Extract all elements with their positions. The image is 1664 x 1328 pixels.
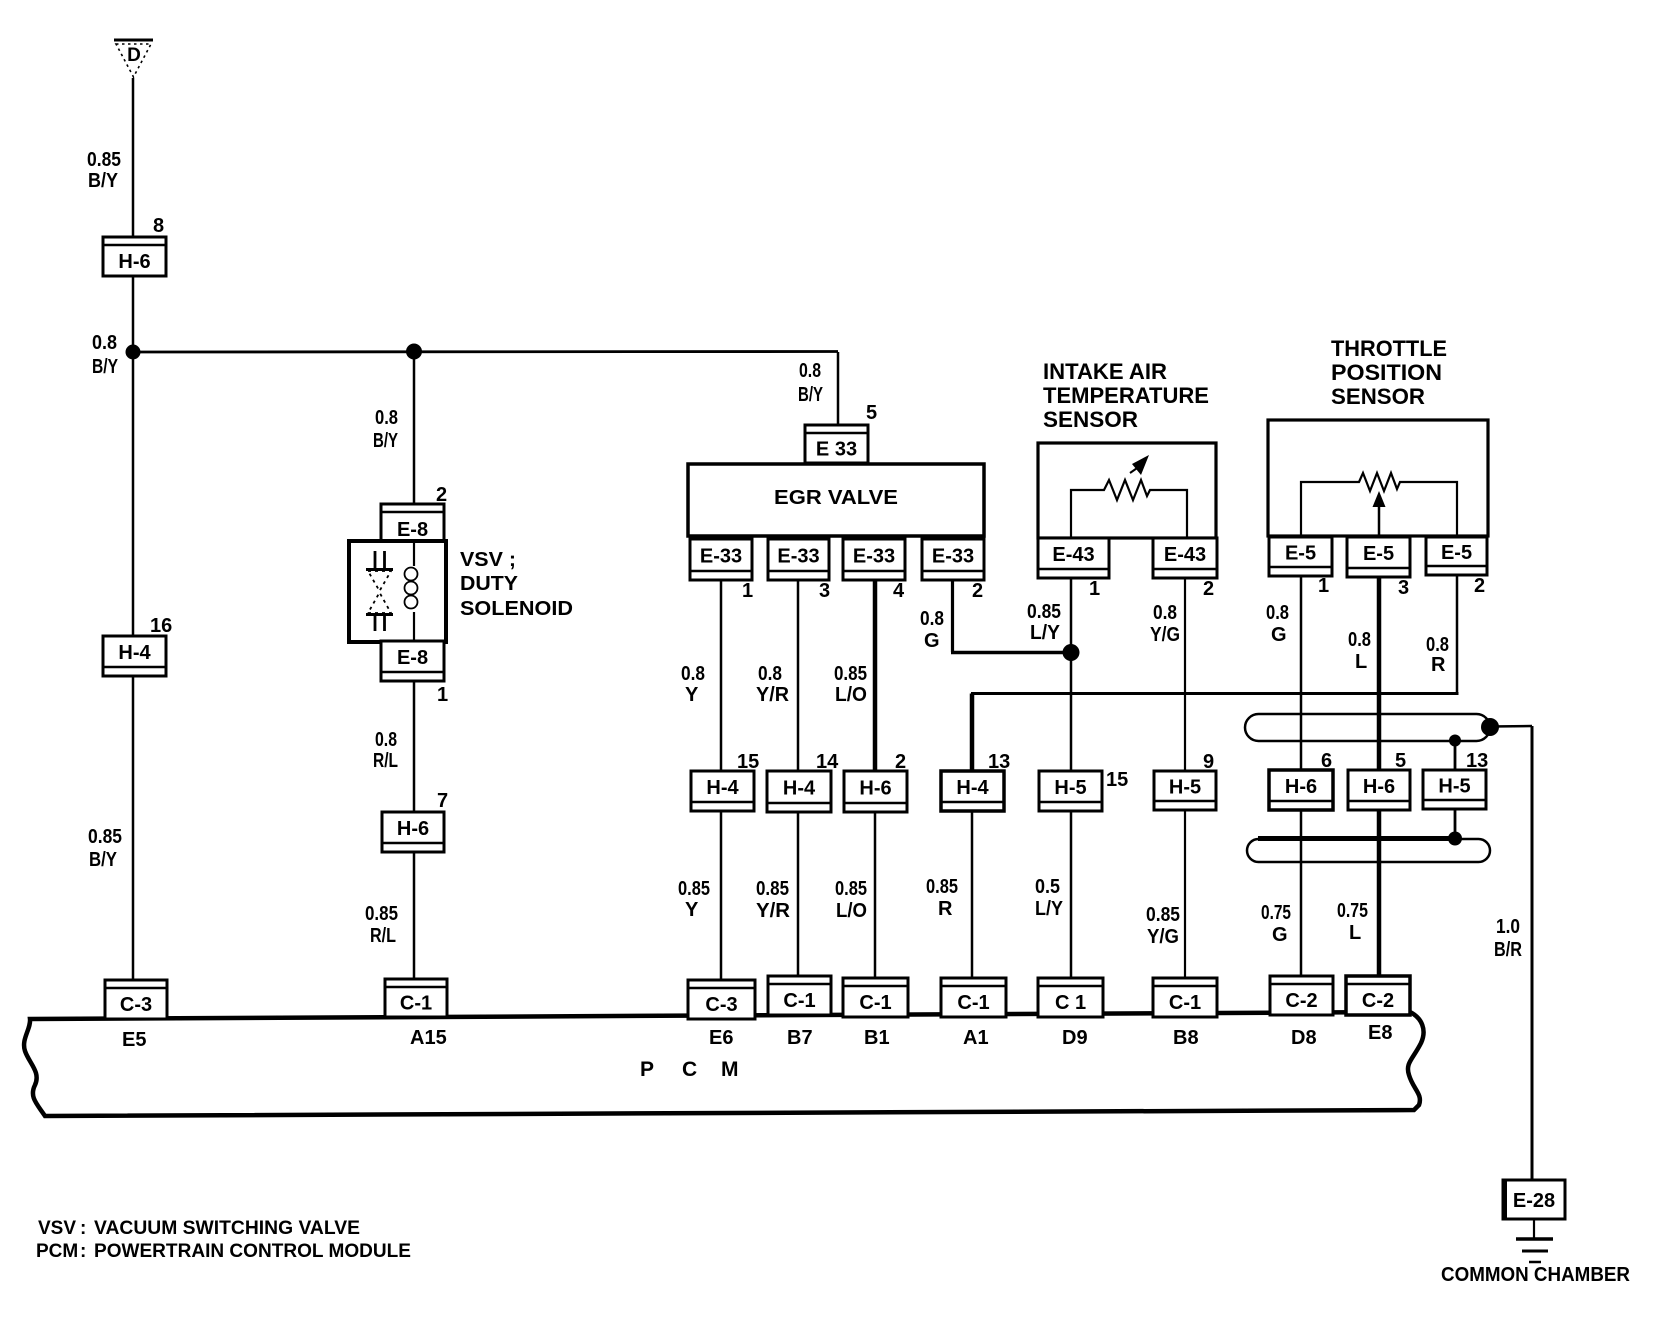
svg-text:0.85: 0.85 <box>926 876 958 898</box>
wire 0.5 L/Y from H-5 to C-1 <box>1070 811 1073 979</box>
svg-text:L/Y: L/Y <box>1035 898 1064 920</box>
throttle position sensor body <box>1268 420 1488 536</box>
svg-text:L/O: L/O <box>836 900 867 922</box>
svg-text:TEMPERATURE: TEMPERATURE <box>1043 383 1209 408</box>
connector H-6 pin 2 <box>844 751 907 812</box>
wire E-28 to ground <box>1533 1219 1535 1239</box>
svg-text:Y/R: Y/R <box>756 900 791 922</box>
svg-text:THROTTLE: THROTTLE <box>1331 336 1447 361</box>
connector C-1 (PCM A15) <box>385 979 447 1017</box>
svg-text:R: R <box>1431 654 1446 676</box>
svg-text:0.85: 0.85 <box>1027 601 1061 623</box>
PCM pin E5 <box>122 1029 146 1051</box>
connector E-33 pin 4 <box>843 539 905 602</box>
svg-text:0.85: 0.85 <box>678 878 710 900</box>
shield lower (screened cable) <box>1247 839 1490 863</box>
svg-text:C-1: C-1 <box>957 992 989 1014</box>
svg-text:SOLENOID: SOLENOID <box>460 598 573 620</box>
wire from H-4 pin 16 to C-3 <box>132 676 135 981</box>
svg-text:SENSOR: SENSOR <box>1043 407 1138 432</box>
label 0.8 G <box>920 608 944 652</box>
svg-text:8: 8 <box>153 215 164 237</box>
svg-text:2: 2 <box>436 484 447 506</box>
svg-text:E5: E5 <box>122 1029 146 1051</box>
connector C-3 (PCM E5) <box>105 980 167 1019</box>
svg-text:4: 4 <box>893 580 905 602</box>
svg-text:D8: D8 <box>1291 1027 1317 1049</box>
svg-text:5: 5 <box>866 402 877 424</box>
label 0.85 L/Y <box>1027 601 1061 644</box>
label 0.5 L/Y <box>1035 876 1064 920</box>
label 0.85 Y <box>678 878 710 921</box>
connector E-43 pin 1 <box>1038 538 1109 600</box>
PCM pin B7 <box>787 1027 813 1049</box>
svg-text:EGR VALVE: EGR VALVE <box>774 487 898 509</box>
svg-text:B/R: B/R <box>1494 939 1522 961</box>
connector C-3 (PCM E6) <box>688 980 755 1019</box>
connector H-6 pin 5 <box>1348 750 1410 810</box>
label 0.8 B/Y (EGR) <box>798 360 823 406</box>
wire 0.8 G from E-5 pin 1 through shield to C-2 <box>1300 576 1303 977</box>
svg-text:1: 1 <box>437 684 448 706</box>
svg-text:3: 3 <box>819 580 830 602</box>
svg-text:G: G <box>1272 924 1288 946</box>
wire 0.8 B/Y from bus to E-8 <box>413 352 416 505</box>
svg-text:C: C <box>682 1058 697 1081</box>
solenoid valve VSV duty solenoid <box>349 541 446 642</box>
label 0.75 L <box>1337 900 1368 944</box>
svg-text:L/Y: L/Y <box>1030 622 1061 644</box>
wire horizontal bus 0.8 B/Y <box>133 350 838 353</box>
svg-text:E-8: E-8 <box>397 519 428 541</box>
connector C-1 (PCM A1) <box>941 978 1006 1017</box>
svg-text:C-1: C-1 <box>400 992 432 1014</box>
PCM pin B1 <box>864 1027 890 1049</box>
svg-text:VSV: VSV <box>38 1218 76 1239</box>
wire stub shield to H-5 pin 13 <box>1454 741 1457 771</box>
svg-text:E-33: E-33 <box>853 545 895 567</box>
svg-text:H-4: H-4 <box>118 642 151 664</box>
label 0.85 R <box>926 876 958 920</box>
label 0.85 R/L <box>365 903 398 947</box>
svg-text:C 1: C 1 <box>1055 992 1086 1014</box>
connector H-5 pin 9 <box>1154 751 1216 810</box>
PCM pin B8 <box>1173 1027 1199 1049</box>
svg-text:0.85: 0.85 <box>835 878 867 900</box>
svg-text:0.85: 0.85 <box>365 903 398 925</box>
connector C-1 (PCM D9) <box>1038 978 1103 1017</box>
svg-text:0.85: 0.85 <box>88 826 122 848</box>
svg-text:H-4: H-4 <box>706 777 739 799</box>
svg-text:L: L <box>1355 651 1367 673</box>
svg-text:E-33: E-33 <box>700 545 742 567</box>
label THROTTLE POSITION SENSOR <box>1331 336 1447 409</box>
svg-text:Y/G: Y/G <box>1150 624 1180 646</box>
svg-text:SENSOR: SENSOR <box>1331 384 1425 409</box>
legend PCM definition <box>36 1241 411 1262</box>
svg-text:E-5: E-5 <box>1285 542 1316 564</box>
wire 0.85 B/Y from D to H-6 <box>132 78 135 238</box>
wire 0.8 B/Y from bus to E-33 pin 5 <box>837 352 840 426</box>
svg-text:0.8: 0.8 <box>375 729 397 751</box>
label 0.85 L/O (lower) <box>835 878 867 922</box>
label 0.85 Y/G <box>1146 904 1180 948</box>
svg-text:COMMON CHAMBER: COMMON CHAMBER <box>1441 1264 1631 1286</box>
svg-text:R/L: R/L <box>370 925 396 947</box>
junction node shield to drain wire <box>1481 718 1499 736</box>
svg-text:1: 1 <box>742 580 753 602</box>
connector H-5 pin 15 <box>1039 769 1128 811</box>
svg-text:Y/G: Y/G <box>1147 926 1179 948</box>
svg-text:A15: A15 <box>410 1027 447 1049</box>
connector H-6 pin 6 <box>1269 750 1333 810</box>
wire 0.8 L from E-5 pin 3 through shield to C-2 <box>1377 577 1382 977</box>
svg-text:0.85: 0.85 <box>756 878 789 900</box>
svg-text:15: 15 <box>737 751 759 773</box>
wire 0.8 R/L from E-8 to H-6 <box>413 681 416 813</box>
wire 1.0 B/R shield drain to E-28 <box>1490 726 1532 1181</box>
wire 0.85 R/L from H-6 to C-1 <box>413 852 416 980</box>
svg-text:0.8: 0.8 <box>1266 602 1289 624</box>
svg-text:H-6: H-6 <box>859 777 891 799</box>
svg-text:G: G <box>1271 624 1287 646</box>
svg-text:3: 3 <box>1398 577 1409 599</box>
connector H-5 pin 13 <box>1423 750 1488 809</box>
PCM pin E8 <box>1368 1022 1392 1044</box>
svg-text:Y/R: Y/R <box>756 684 790 706</box>
svg-text:G: G <box>924 630 940 652</box>
PCM powertrain control module body <box>24 1012 1423 1116</box>
connector H-4 pin 15 <box>691 751 759 811</box>
wire 0.85 Y/G from H-5 to C-1 <box>1184 810 1186 979</box>
svg-text:0.8: 0.8 <box>758 663 782 685</box>
svg-text:E-8: E-8 <box>397 647 428 669</box>
svg-text:0.8: 0.8 <box>375 407 398 429</box>
label 0.8 Y/G <box>1150 602 1180 646</box>
svg-text:6: 6 <box>1321 750 1332 772</box>
connector E-33 pin 3 <box>768 539 830 602</box>
label 1.0 B/R <box>1494 916 1522 961</box>
connector E-5 pin 3 <box>1347 537 1410 599</box>
label 0.85 L/O <box>834 663 867 706</box>
svg-text:7: 7 <box>437 790 448 812</box>
svg-text:L: L <box>1349 922 1361 944</box>
svg-text:1: 1 <box>1089 578 1100 600</box>
svg-text:2: 2 <box>972 580 983 602</box>
connector E-28 <box>1503 1180 1565 1219</box>
svg-text:C-2: C-2 <box>1285 990 1317 1012</box>
wire 0.85 Y from H-4 to C-3 <box>720 811 723 981</box>
wire 0.85 L/Y from E-43 pin 1 to H-5 <box>1070 578 1073 772</box>
svg-text:E-28: E-28 <box>1513 1190 1555 1212</box>
PCM pin E6 <box>709 1027 733 1049</box>
label 0.85 Y/R <box>756 878 791 922</box>
label 0.8 B/Y (VSV branch) <box>373 407 398 452</box>
svg-text:H-6: H-6 <box>1285 776 1317 798</box>
label 0.8 G (TPS) <box>1266 602 1289 646</box>
svg-text:13: 13 <box>988 751 1010 773</box>
svg-text:DUTY: DUTY <box>460 573 519 595</box>
junction node G wire to L/Y wire <box>1063 644 1080 661</box>
label 0.8 R/L <box>373 729 398 772</box>
connector H-4 pin 16 <box>103 615 172 676</box>
svg-text:B/Y: B/Y <box>798 384 823 406</box>
connector H-6 pin 7 <box>382 790 448 852</box>
svg-text:B/Y: B/Y <box>373 430 398 452</box>
wire 0.8 Y/R from E-33 pin 3 to H-4 <box>797 580 800 772</box>
svg-text:0.8: 0.8 <box>1426 634 1449 656</box>
svg-text:0.8: 0.8 <box>1153 602 1177 624</box>
connector C-2 (PCM D8) <box>1270 976 1333 1015</box>
svg-text:16: 16 <box>150 615 172 637</box>
label 0.85 B/Y (left lower) <box>88 826 122 871</box>
potentiometer element <box>1301 473 1457 537</box>
label VSV ; DUTY SOLENOID <box>460 549 573 620</box>
label 0.8 L <box>1348 629 1371 673</box>
label 0.8 Y <box>681 663 705 706</box>
connector C-2 (PCM E8) <box>1346 976 1410 1015</box>
connector E-33 pin 1 <box>690 539 753 602</box>
svg-text:E-43: E-43 <box>1164 544 1206 566</box>
svg-text:1.0: 1.0 <box>1496 916 1520 938</box>
connector E-5 pin 2 <box>1426 537 1487 597</box>
wire 0.85 R from H-4 to C-1 <box>971 811 974 979</box>
ground point D (joint connector) <box>114 40 153 77</box>
junction node at VSV branch <box>406 344 422 360</box>
svg-text:H-6: H-6 <box>1363 776 1395 798</box>
svg-text:0.75: 0.75 <box>1337 900 1368 922</box>
label 0.8 Y/R <box>756 663 790 706</box>
wire 0.8 B/Y from H-6 to junction <box>132 276 135 352</box>
connector H-6 pin 8 <box>103 215 166 276</box>
connector E-8 pin 1 <box>381 641 448 706</box>
EGR valve body <box>688 464 984 536</box>
label COMMON CHAMBER <box>1441 1264 1631 1286</box>
svg-text:H-5: H-5 <box>1438 775 1470 797</box>
svg-text:A1: A1 <box>963 1027 989 1049</box>
svg-text:E-5: E-5 <box>1363 543 1394 565</box>
svg-text:M: M <box>721 1058 739 1081</box>
svg-text:B1: B1 <box>864 1027 890 1049</box>
connector E-8 pin 2 <box>381 484 447 545</box>
svg-text:13: 13 <box>1466 750 1488 772</box>
svg-text:H-5: H-5 <box>1054 777 1086 799</box>
svg-text:0.5: 0.5 <box>1035 876 1060 898</box>
svg-text:2: 2 <box>895 751 906 773</box>
svg-text:C-3: C-3 <box>705 994 737 1016</box>
svg-text:1: 1 <box>1318 575 1329 597</box>
svg-text:0.8: 0.8 <box>1348 629 1371 651</box>
connector E-33 pin 2 <box>922 539 984 602</box>
svg-text:H-4: H-4 <box>956 777 989 799</box>
junction node lower shield to H-5 pin 13 <box>1448 832 1462 846</box>
svg-text:C-1: C-1 <box>1169 992 1201 1014</box>
svg-text:E 33: E 33 <box>816 438 857 460</box>
svg-text:9: 9 <box>1203 751 1214 773</box>
svg-text:H-6: H-6 <box>118 251 150 273</box>
svg-text:0.85: 0.85 <box>1146 904 1180 926</box>
svg-text:E8: E8 <box>1368 1022 1392 1044</box>
svg-text:E-5: E-5 <box>1441 542 1472 564</box>
connector C-1 (PCM B8) <box>1153 978 1217 1017</box>
label 0.8 B/Y <box>92 332 119 378</box>
svg-text:2: 2 <box>1474 575 1485 597</box>
svg-text:C-3: C-3 <box>120 994 152 1016</box>
svg-text:R: R <box>938 898 953 920</box>
PCM pin D9 <box>1062 1027 1088 1049</box>
svg-text:C-1: C-1 <box>859 992 891 1014</box>
wire 0.8 G from E-33 pin 2 to L/Y junction <box>951 580 1071 653</box>
svg-text:H-6: H-6 <box>397 818 429 840</box>
wire 0.85 L/O from E-33 pin 4 to H-6 <box>873 580 878 772</box>
wire 0.8 Y/G from E-43 pin 2 to H-5 <box>1184 578 1186 772</box>
svg-text:E-43: E-43 <box>1052 544 1094 566</box>
svg-text:2: 2 <box>1203 578 1214 600</box>
label 0.85 B/Y <box>87 149 121 192</box>
junction node at bus left <box>126 345 141 360</box>
PCM pin A15 <box>410 1027 447 1049</box>
svg-text:C-2: C-2 <box>1362 990 1394 1012</box>
svg-text:B/Y: B/Y <box>89 849 118 871</box>
svg-text:D9: D9 <box>1062 1027 1088 1049</box>
thermistor element <box>1071 455 1187 538</box>
PCM pin D8 <box>1291 1027 1317 1049</box>
svg-text:P: P <box>640 1058 654 1081</box>
svg-text:0.8: 0.8 <box>681 663 705 685</box>
svg-text:0.8: 0.8 <box>799 360 821 382</box>
svg-text:B7: B7 <box>787 1027 813 1049</box>
svg-text:POWERTRAIN CONTROL MODULE: POWERTRAIN CONTROL MODULE <box>94 1241 411 1262</box>
svg-text:L/O: L/O <box>835 684 867 706</box>
svg-text:Y: Y <box>685 684 699 706</box>
label INTAKE AIR TEMPERATURE SENSOR <box>1043 359 1209 432</box>
svg-text:0.8: 0.8 <box>920 608 944 630</box>
svg-text:C-1: C-1 <box>783 990 815 1012</box>
svg-text::: : <box>80 1218 86 1239</box>
wire 0.8 Y from E-33 pin 1 to H-4 <box>720 580 723 772</box>
svg-text:B8: B8 <box>1173 1027 1199 1049</box>
svg-text:H-4: H-4 <box>783 777 816 799</box>
label 0.75 G <box>1261 902 1291 946</box>
svg-text:0.85: 0.85 <box>834 663 867 685</box>
connector E-43 pin 2 <box>1153 538 1217 600</box>
legend VSV definition <box>38 1218 360 1239</box>
svg-text:POSITION: POSITION <box>1331 360 1442 385</box>
intake air temperature sensor body <box>1038 443 1216 538</box>
svg-text:0.85: 0.85 <box>87 149 121 171</box>
wire 0.85 L/O from H-6 to C-1 <box>874 812 877 979</box>
connector E-5 pin 1 <box>1269 537 1332 597</box>
shield upper (screened cable) <box>1245 714 1490 741</box>
svg-text:R/L: R/L <box>373 750 398 772</box>
connector H-4 pin 13 <box>941 751 1010 811</box>
svg-text:INTAKE AIR: INTAKE AIR <box>1043 359 1167 384</box>
svg-text:VSV ;: VSV ; <box>460 549 516 571</box>
svg-text:PCM: PCM <box>36 1241 78 1262</box>
ground common chamber <box>1516 1239 1553 1262</box>
label 0.8 R <box>1426 634 1449 676</box>
svg-text:D: D <box>127 45 141 66</box>
svg-text:B/Y: B/Y <box>88 170 119 192</box>
svg-text:E6: E6 <box>709 1027 733 1049</box>
wire 0.85 Y/R from H-4 to C-1 <box>797 812 800 977</box>
PCM pin A1 <box>963 1027 989 1049</box>
wire from junction down to H-4 <box>132 352 135 637</box>
svg-text:VACUUM SWITCHING VALVE: VACUUM SWITCHING VALVE <box>94 1218 360 1239</box>
svg-text:Y: Y <box>685 899 699 921</box>
wire 0.8 R from E-5 pin 2 to H-4 pin 13 <box>971 575 1459 772</box>
connector H-4 pin 14 <box>767 751 839 812</box>
svg-text:0.8: 0.8 <box>92 332 117 354</box>
connector C-1 (PCM B1) <box>843 978 908 1017</box>
svg-text:B/Y: B/Y <box>92 356 119 378</box>
svg-text:H-5: H-5 <box>1169 776 1201 798</box>
svg-text:5: 5 <box>1395 750 1406 772</box>
svg-text:15: 15 <box>1106 769 1128 791</box>
connector C-1 (PCM B7) <box>768 976 831 1015</box>
svg-text::: : <box>80 1241 86 1262</box>
svg-text:0.75: 0.75 <box>1261 902 1291 924</box>
svg-text:14: 14 <box>816 751 839 773</box>
connector E-33 pin 5 <box>805 402 877 463</box>
svg-text:E-33: E-33 <box>777 545 819 567</box>
wire stub H-5 pin 13 to lower shield <box>1454 809 1457 838</box>
svg-text:E-33: E-33 <box>932 545 974 567</box>
junction node shield to H-5 pin 13 <box>1449 735 1461 747</box>
